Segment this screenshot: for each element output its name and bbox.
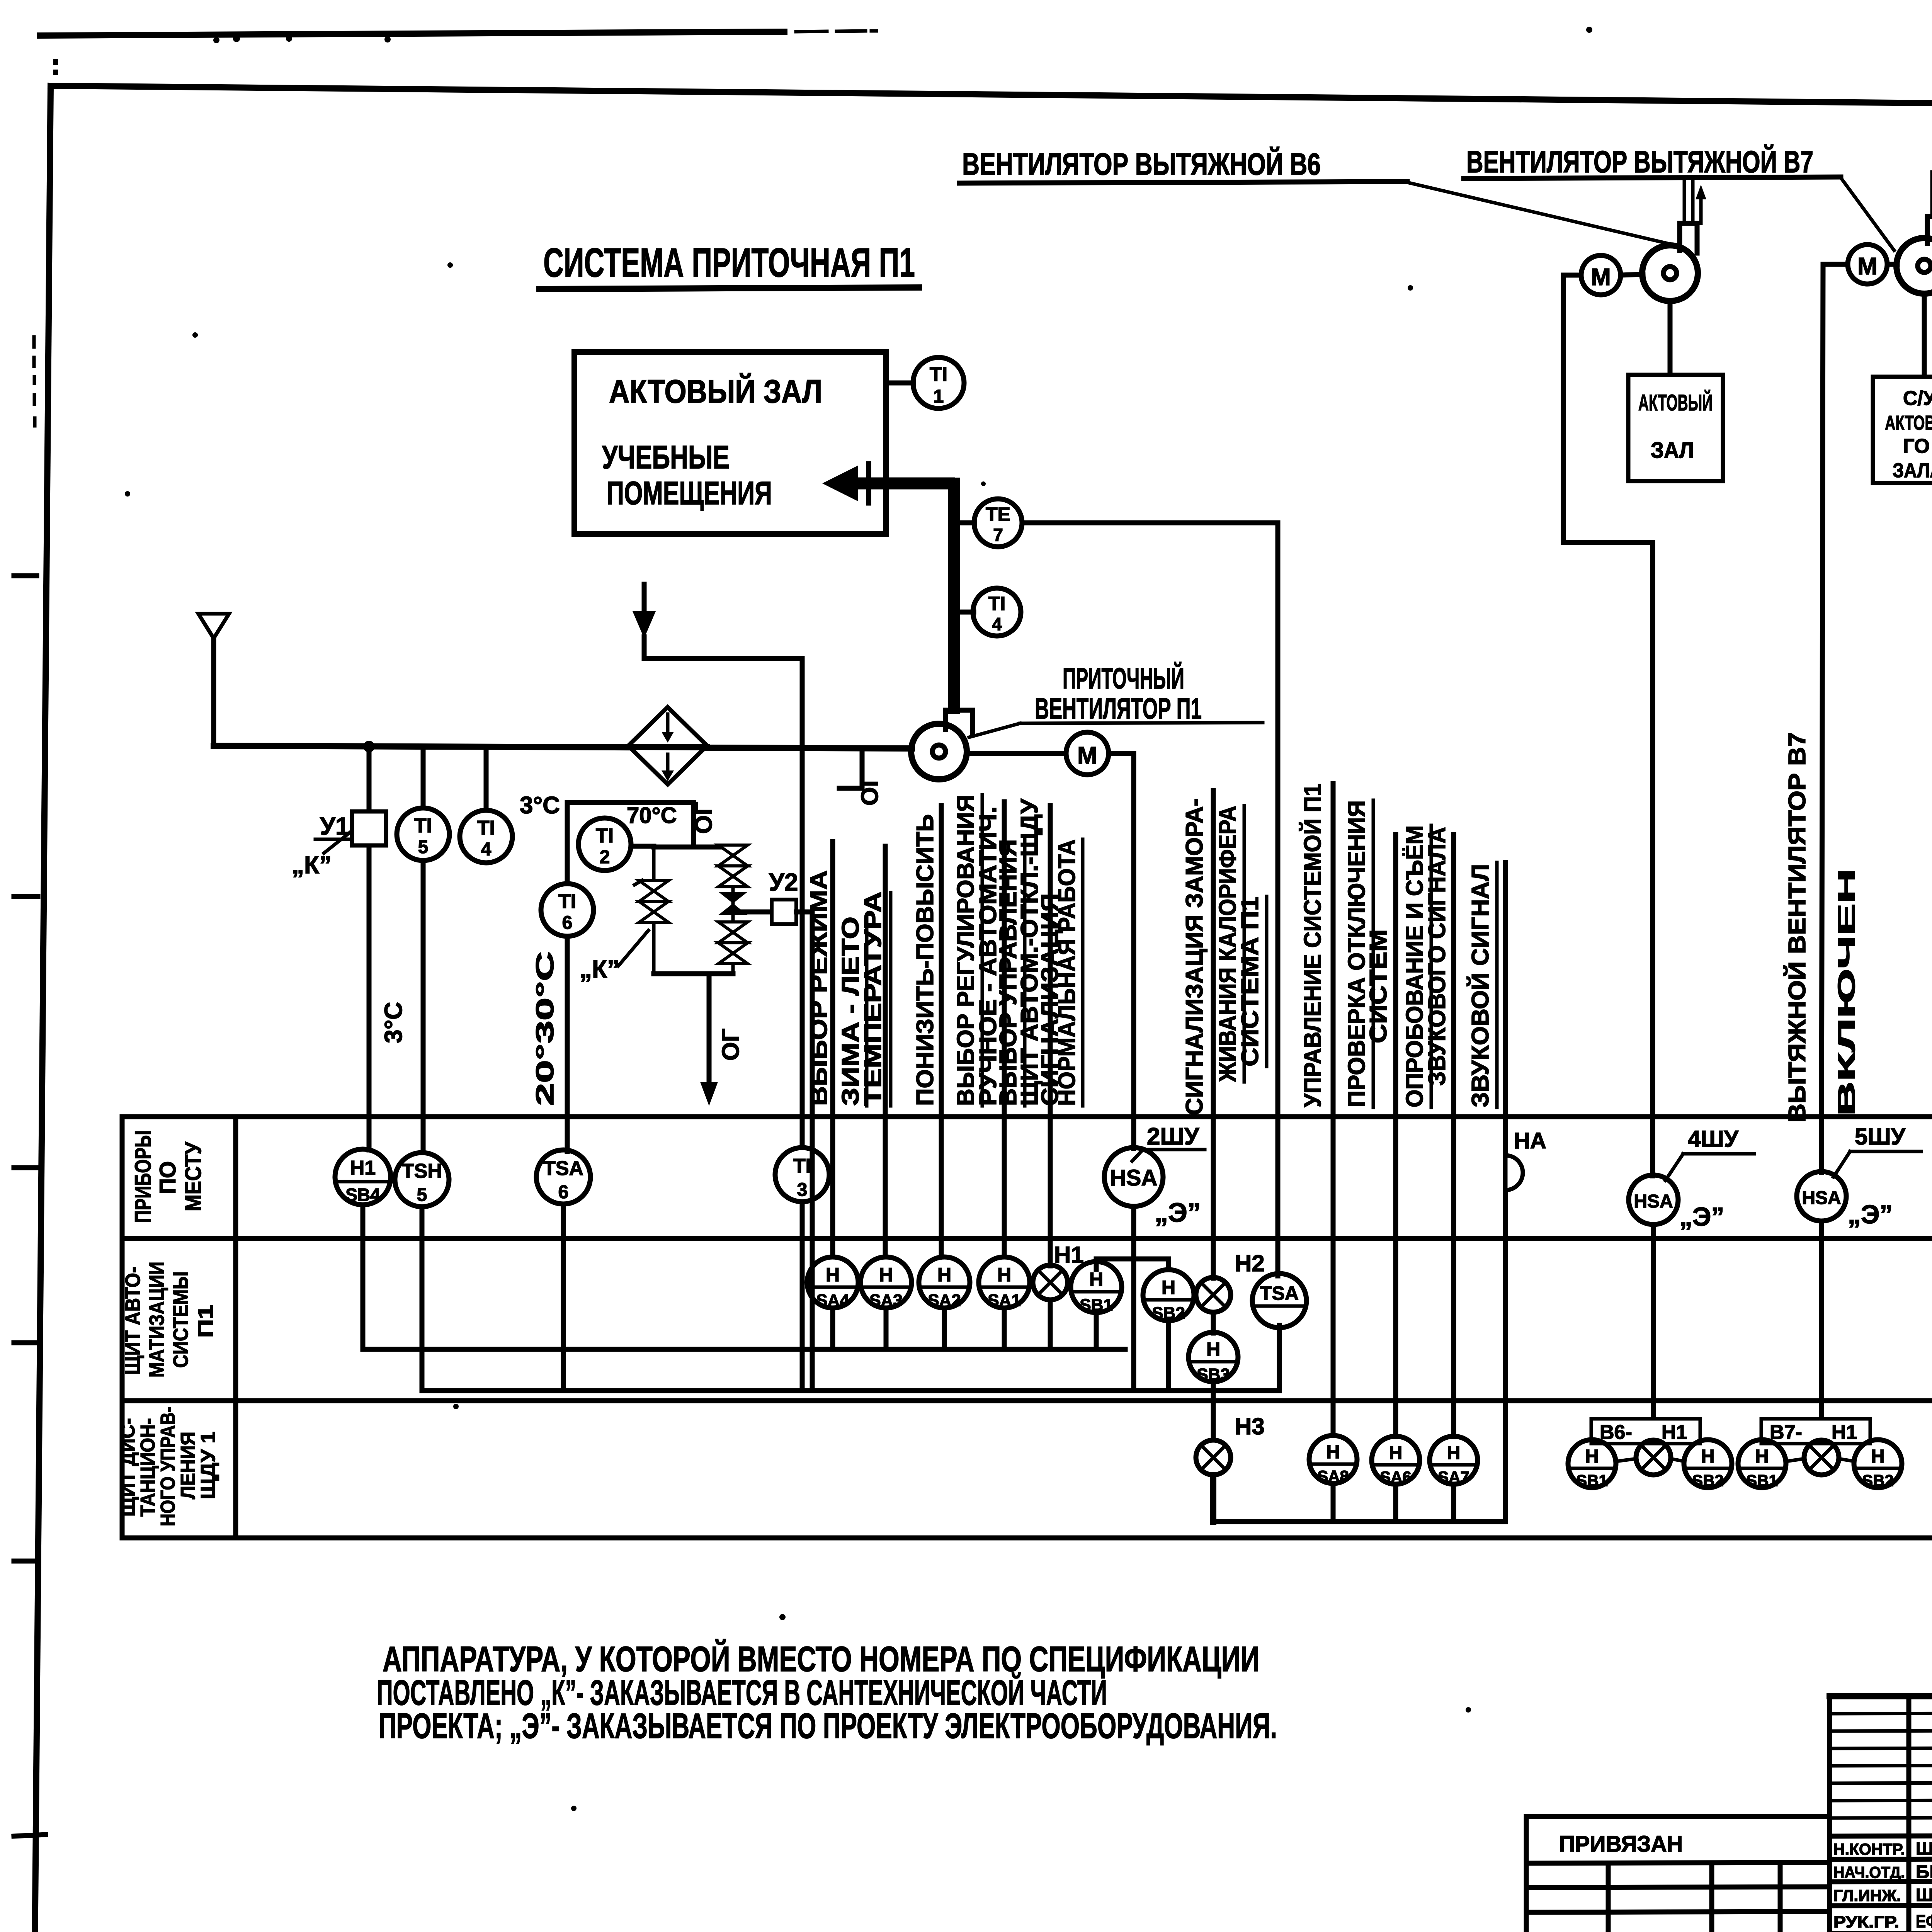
svg-text:ЛЕНИЯ: ЛЕНИЯ: [177, 1432, 199, 1499]
svg-text:УЧЕБНЫЕ: УЧЕБНЫЕ: [602, 439, 730, 475]
svg-text:ПРОЕКТА; „Э”- ЗАКАЗЫВАЕТСЯ ПО: ПРОЕКТА; „Э”- ЗАКАЗЫВАЕТСЯ ПО ПРОЕКТУ ЭЛ…: [379, 1706, 1277, 1746]
svg-text:3°С: 3°С: [379, 1002, 407, 1043]
instrument NSA 4shu B6: [1629, 1175, 1678, 1225]
svg-text:СИСТЕМА ПРИТОЧНАЯ П1: СИСТЕМА ПРИТОЧНАЯ П1: [543, 240, 915, 286]
svg-text:ТSН: ТSН: [402, 1160, 442, 1182]
fan B6 duct down to box: [1668, 301, 1673, 376]
left margin tick y4752: [14, 1835, 46, 1836]
H1 bracket: [1096, 1259, 1168, 1270]
svg-text:„Э”: „Э”: [1155, 1197, 1201, 1228]
svg-text:ОГ: ОГ: [718, 1029, 744, 1061]
grid labeled rows: [1830, 1835, 1932, 1836]
instrument TSA6: [536, 1150, 590, 1204]
Y1 wire: [367, 747, 372, 1150]
wire H2 chain: [1211, 791, 1216, 1278]
instrument H/SB3: [1189, 1332, 1238, 1384]
svg-text:5: 5: [417, 1185, 427, 1205]
drop lamp a: [1048, 1300, 1053, 1349]
valve R1: [718, 845, 748, 866]
svg-text:ЩДУ 1: ЩДУ 1: [197, 1432, 219, 1499]
thick supply duct vertical: [948, 478, 960, 714]
svg-text:П1: П1: [194, 1305, 217, 1338]
fan B6 link M-volute: [1621, 274, 1643, 275]
instrument TI2: [578, 818, 654, 871]
svg-text:ПО: ПО: [155, 1161, 180, 1194]
B6 lamp H/SB2: [1684, 1440, 1732, 1490]
svg-text:5ШУ: 5ШУ: [1855, 1124, 1906, 1150]
svg-text:Н1: Н1: [1832, 1421, 1857, 1444]
svg-text:С/У: С/У: [1903, 387, 1932, 410]
instrument H/SA7: [1430, 1436, 1478, 1486]
instrument NSA 5shu B7: [1797, 1172, 1846, 1221]
svg-text:70°С: 70°С: [627, 803, 677, 828]
main line over diamond: [628, 747, 707, 747]
svg-text:2ШУ: 2ШУ: [1147, 1123, 1200, 1150]
instrument TI3: [775, 1148, 829, 1202]
box s/u aktovogo zala (B7): [1873, 377, 1932, 483]
svg-text:ШИЛО В: ШИЛО В: [1916, 1885, 1932, 1905]
svg-text:ШИЛО В: ШИЛО В: [1916, 1838, 1932, 1859]
svg-text:4: 4: [992, 614, 1002, 634]
svg-text:ГЛ.ИНЖ.: ГЛ.ИНЖ.: [1833, 1886, 1901, 1905]
fan B7 motor M: [1848, 245, 1887, 284]
svg-text:Н.КОНТР.: Н.КОНТР.: [1833, 1840, 1905, 1858]
left edge dashes: [32, 337, 36, 347]
svg-text:Н: Н: [997, 1264, 1011, 1286]
wire TE7 to table TSA: [1022, 523, 1278, 1276]
fresh air down arrow: [642, 584, 647, 611]
instrument H1/SB4: [335, 1149, 391, 1205]
svg-text:ПОМЕЩЕНИЯ: ПОМЕЩЕНИЯ: [607, 475, 772, 511]
table outer frame: [122, 1117, 1932, 1538]
instrument H/SA1: [979, 1257, 1030, 1310]
svg-text:УПРАВЛЕНИЕ СИСТЕМОЙ П1: УПРАВЛЕНИЕ СИСТЕМОЙ П1: [1299, 784, 1326, 1107]
svg-text:НОРМАЛЬНАЯ РАБОТА: НОРМАЛЬНАЯ РАБОТА: [1054, 839, 1080, 1106]
left margin tick y4040: [14, 1559, 39, 1564]
svg-text:Н: Н: [1871, 1446, 1885, 1467]
svg-text:АКТОВЫЙ ЗАЛ: АКТОВЫЙ ЗАЛ: [609, 373, 822, 410]
instrument TI4-outdoor: [460, 747, 512, 863]
svg-text:Н: Н: [826, 1264, 840, 1286]
B7 cluster links: [1786, 1459, 1805, 1461]
horn HA: [1505, 1155, 1523, 1190]
svg-text:Н: Н: [1162, 1277, 1175, 1298]
instrument TSA row2: [1252, 1274, 1306, 1328]
fan B6 pipe arrow: [1699, 195, 1703, 223]
svg-text:НА: НА: [1514, 1128, 1546, 1153]
svg-text:ТI: ТI: [988, 593, 1005, 614]
grid thin rows: [1830, 1713, 1932, 1714]
svg-text:ТSА: ТSА: [543, 1157, 583, 1180]
svg-text:В6-: В6-: [1600, 1421, 1632, 1444]
svg-text:ТI: ТI: [558, 890, 576, 913]
svg-text:В7-: В7-: [1770, 1421, 1802, 1444]
Y2 wire to panel: [796, 912, 812, 1389]
svg-text:4ШУ: 4ШУ: [1688, 1126, 1739, 1152]
svg-text:20°30°С: 20°30°С: [531, 951, 559, 1106]
B7 lamp H/SB1: [1738, 1440, 1786, 1490]
B6-H1 bracket: [1591, 1419, 1700, 1444]
B7-H1 bracket: [1761, 1419, 1870, 1444]
svg-text:ВЕНТИЛЯТОР ВЫТЯЖНОЙ В6: ВЕНТИЛЯТОР ВЫТЯЖНОЙ В6: [962, 146, 1321, 181]
drop SA1: [1002, 1308, 1007, 1349]
noise dots: [213, 37, 219, 43]
instrument TI5: [397, 747, 449, 1153]
svg-text:НSА: НSА: [1634, 1191, 1673, 1212]
svg-text:ЗАЛА: ЗАЛА: [1893, 459, 1932, 482]
svg-text:СИСТЕМА П1: СИСТЕМА П1: [1237, 896, 1264, 1066]
main title underline: [539, 287, 919, 289]
drop TSA6 to bus B: [561, 1204, 566, 1391]
svg-text:Н3: Н3: [1235, 1413, 1265, 1439]
svg-text:5: 5: [418, 837, 429, 857]
B7 lamp H/SB2: [1854, 1440, 1902, 1490]
svg-text:ВЫБОР РЕЖИМА: ВЫБОР РЕЖИМА: [806, 870, 832, 1106]
wire volute to M: [967, 751, 1066, 756]
box aktovy zal (B6): [1628, 375, 1723, 481]
fan B7 duct down to box: [1922, 294, 1927, 378]
wire vybor rezhima: [830, 842, 835, 1257]
instrument H/SA3: [861, 1257, 912, 1310]
fan B7 exhaust pipe: [1930, 172, 1932, 216]
title block right section outline: [1830, 1696, 1932, 1932]
svg-text:7: 7: [993, 525, 1003, 545]
small grid table outline: [1830, 1696, 1932, 1932]
svg-text:У2: У2: [769, 868, 798, 896]
instrument H/SA8: [1309, 1435, 1357, 1485]
svg-text:АКТОВО-: АКТОВО-: [1885, 412, 1932, 434]
wire proverka: [1393, 835, 1398, 1437]
heat exchanger diamond: [628, 707, 707, 784]
svg-text:Н: Н: [1755, 1446, 1769, 1467]
left margin tick y3022: [14, 1165, 39, 1170]
supply fan volute: [911, 710, 973, 779]
wire H2 to SB3: [1211, 1312, 1216, 1333]
svg-text:SВ2: SВ2: [1862, 1471, 1894, 1490]
drop TSA row2 to bus B: [1277, 1325, 1282, 1391]
svg-text:SВ1: SВ1: [1576, 1471, 1608, 1490]
fan B7 link: [1887, 262, 1897, 267]
TI6 wire down: [565, 936, 570, 1151]
leader B6: [1407, 182, 1681, 247]
svg-text:Н: Н: [1206, 1338, 1220, 1360]
drop SB2 to bus B: [1166, 1321, 1171, 1391]
svg-text:2: 2: [600, 847, 610, 867]
drop TSH5 to bus B: [420, 1207, 425, 1391]
lamp cross a: [1033, 1265, 1068, 1300]
fan B6 wire to NSA: [1563, 275, 1653, 1176]
svg-text:6: 6: [562, 913, 573, 933]
frame top border: [51, 86, 1932, 110]
wire oprobovanie: [1451, 835, 1456, 1437]
svg-text:БЕЛО В: БЕЛО В: [1916, 1862, 1932, 1882]
left margin tick y3475: [14, 1340, 39, 1345]
OG stub right of diamond: [839, 750, 862, 788]
svg-text:„Э”: „Э”: [1679, 1202, 1724, 1231]
frame left border: [35, 86, 51, 1932]
svg-text:4: 4: [481, 839, 492, 860]
outer top edge line: [40, 32, 784, 36]
svg-text:„К”: „К”: [292, 851, 332, 879]
valve L2: [639, 901, 668, 922]
svg-text:ВЕНТИЛЯТОР П1: ВЕНТИЛЯТОР П1: [1035, 692, 1202, 725]
svg-text:М: М: [1857, 253, 1878, 280]
svg-text:Н: Н: [1585, 1446, 1599, 1467]
svg-text:ОГ: ОГ: [857, 774, 883, 806]
wire H3 to bus3: [1210, 1475, 1216, 1522]
row2 bus B: [422, 1388, 1279, 1393]
supply fan motor M: [1066, 732, 1109, 775]
svg-text:Н: Н: [1447, 1443, 1461, 1463]
instrument H/SA2: [919, 1257, 970, 1310]
svg-text:МАТИЗАЦИИ: МАТИЗАЦИИ: [145, 1262, 168, 1378]
svg-text:3: 3: [797, 1180, 808, 1200]
wire vybor upravleniya: [1002, 802, 1007, 1257]
B6 cluster links: [1616, 1459, 1637, 1461]
left string pipe: [652, 847, 656, 974]
fan B6 volute: [1642, 223, 1698, 301]
drop SA4: [830, 1308, 835, 1349]
wire upravlenie sistemoy: [1331, 784, 1336, 1435]
table label column divider: [233, 1117, 238, 1538]
fan B6 motor M: [1581, 255, 1621, 295]
lamp cross H3: [1196, 1440, 1231, 1475]
wire zvukovoy signal to horn and bus: [1503, 862, 1508, 1522]
svg-text:ЗВУКОВОЙ СИГНАЛ: ЗВУКОВОЙ СИГНАЛ: [1467, 864, 1494, 1107]
right string pipe: [731, 847, 735, 974]
instrument TI4 on duct: [961, 588, 1021, 636]
svg-text:ЩИТ ДИС-: ЩИТ ДИС-: [117, 1418, 139, 1517]
main air line: [214, 746, 912, 748]
OG return drop with arrow: [707, 974, 712, 1094]
manifold bottom header: [654, 971, 733, 976]
outer top edge dashes: [796, 31, 827, 32]
svg-text:ПОНИЗИТЬ-ПОВЫСИТЬ: ПОНИЗИТЬ-ПОВЫСИТЬ: [912, 814, 939, 1106]
instrument NSA 2shu: [1104, 1148, 1163, 1206]
Y2 square valve actuator: [733, 910, 772, 915]
intake riser wire: [214, 638, 216, 746]
drop SB1: [1094, 1313, 1099, 1349]
svg-text:ТЕ: ТЕ: [986, 503, 1010, 525]
svg-text:НSА: НSА: [1110, 1165, 1157, 1190]
TI6 riser to OG pipe: [567, 803, 694, 884]
manifold top header: [654, 845, 733, 850]
wire ponizit-povysit: [939, 806, 944, 1257]
fan B7 wire to NSA: [1821, 264, 1848, 1172]
svg-text:АКТОВЫЙ: АКТОВЫЙ: [1638, 390, 1713, 415]
svg-text:3°С: 3°С: [520, 792, 560, 819]
svg-text:СИГНАЛИЗАЦИЯ ЗАМОРА-: СИГНАЛИЗАЦИЯ ЗАМОРА-: [1181, 798, 1208, 1115]
drop SA2: [942, 1308, 947, 1349]
instrument H/SB1: [1071, 1262, 1122, 1315]
left margin tick y1490: [14, 573, 37, 578]
B6 lamp H/SB1: [1568, 1440, 1616, 1490]
table row divider 2: [122, 1398, 1932, 1403]
svg-text:ТI: ТI: [477, 817, 495, 839]
svg-text:ТSА: ТSА: [1260, 1282, 1299, 1304]
valve L1: [634, 880, 668, 901]
svg-text:Н2: Н2: [1235, 1250, 1265, 1276]
wire M to NSA: [1109, 753, 1134, 1148]
svg-text:ЗВУКОВОГО СИГНАЛА: ЗВУКОВОГО СИГНАЛА: [1424, 827, 1451, 1086]
svg-text:ПРИБОРЫ: ПРИБОРЫ: [131, 1130, 156, 1223]
svg-text:М: М: [1077, 742, 1097, 769]
svg-text:Н: Н: [1389, 1443, 1403, 1463]
table row divider 1: [122, 1236, 1932, 1241]
svg-text:ВКЛЮЧЕН: ВКЛЮЧЕН: [1833, 869, 1860, 1116]
svg-text:Н1: Н1: [350, 1157, 376, 1179]
svg-text:1: 1: [934, 386, 944, 407]
B7 lamp cross: [1804, 1440, 1839, 1475]
svg-text:ТI: ТI: [930, 363, 947, 386]
svg-text:SВ4: SВ4: [345, 1185, 380, 1205]
svg-text:Н1: Н1: [1054, 1242, 1084, 1268]
svg-text:МЕСТУ: МЕСТУ: [181, 1141, 206, 1211]
svg-text:6: 6: [558, 1182, 569, 1202]
Y1 square: [352, 811, 386, 845]
lamp cross H2: [1196, 1277, 1231, 1312]
drop TI3 to bus B: [800, 1202, 805, 1391]
row2 bus A: [363, 1205, 1125, 1349]
junction dot: [363, 741, 375, 752]
privyazan table: [1526, 1816, 1830, 1932]
svg-text:„К”: „К”: [580, 955, 619, 983]
leader B7: [1841, 178, 1894, 250]
instrument TI1: [886, 357, 964, 408]
svg-text:РУК.ГР.: РУК.ГР.: [1833, 1913, 1899, 1931]
svg-text:Н: Н: [1327, 1442, 1340, 1463]
svg-text:ТI: ТI: [596, 825, 614, 847]
fan B7 volute: [1896, 216, 1932, 294]
instrument H/SA4: [807, 1257, 858, 1310]
svg-text:М: М: [1591, 264, 1611, 291]
svg-text:Н1: Н1: [1662, 1421, 1687, 1444]
svg-text:СИСТЕМЫ: СИСТЕМЫ: [169, 1271, 192, 1368]
left margin tick y2320: [14, 894, 38, 899]
svg-text:ВЕНТИЛЯТОР ВЫТЯЖНОЙ В7: ВЕНТИЛЯТОР ВЫТЯЖНОЙ В7: [1466, 144, 1813, 179]
svg-text:Н: Н: [879, 1264, 893, 1286]
svg-text:ПРИТОЧНЫЙ: ПРИТОЧНЫЙ: [1063, 662, 1184, 695]
wire signalizatsiya: [1048, 806, 1053, 1266]
instrument TI6: [541, 884, 594, 936]
wire zima-leto: [883, 846, 888, 1257]
svg-text:НSА: НSА: [1802, 1188, 1841, 1208]
svg-text:ТАНЦИОН-: ТАНЦИОН-: [137, 1418, 159, 1517]
valve R3: [718, 922, 748, 943]
valve R4: [718, 943, 748, 964]
svg-text:ЗАЛ: ЗАЛ: [1651, 438, 1694, 463]
bypass line to TI3: [644, 637, 802, 1148]
svg-text:ЩИТ АВТО-: ЩИТ АВТО-: [121, 1267, 145, 1375]
svg-text:ТЕМПЕРАТУРА: ТЕМПЕРАТУРА: [860, 891, 886, 1106]
svg-text:ПРИВЯЗАН: ПРИВЯЗАН: [1559, 1832, 1683, 1857]
wire SB3 down to H3: [1211, 1382, 1216, 1440]
svg-text:Н: Н: [1701, 1446, 1715, 1467]
instrument H/SA6: [1372, 1436, 1420, 1486]
grid verticals: [1906, 1696, 1912, 1932]
svg-text:НОГО УПРАВ-: НОГО УПРАВ-: [157, 1406, 179, 1526]
svg-text:SВ2: SВ2: [1692, 1471, 1724, 1490]
svg-text:SВ1: SВ1: [1746, 1471, 1778, 1490]
svg-text:ЕФРЕМОВА: ЕФРЕМОВА: [1916, 1911, 1932, 1931]
instrument TE7: [961, 499, 1022, 547]
NSA1 wire down: [1131, 1206, 1136, 1389]
NSA B6 wire down: [1651, 1225, 1656, 1436]
fan B6 exhaust pipe: [1683, 179, 1686, 223]
corner colon marks: [53, 59, 58, 65]
svg-text:„Э”: „Э”: [1848, 1200, 1893, 1229]
NSA B7 wire down: [1819, 1221, 1824, 1436]
valve R2: [718, 866, 748, 887]
instrument TSH5: [395, 1153, 449, 1207]
svg-text:НАЧ.ОТД.: НАЧ.ОТД.: [1833, 1863, 1905, 1881]
thick supply duct horizontal with arrow: [857, 478, 955, 490]
svg-text:ГО: ГО: [1903, 435, 1930, 457]
drop SA3: [884, 1308, 889, 1349]
svg-text:ТI: ТI: [793, 1155, 811, 1177]
B6 lamp cross: [1636, 1440, 1671, 1475]
air intake symbol: [198, 614, 229, 638]
row3 bus: [1213, 1519, 1505, 1524]
check valve filled: [718, 892, 748, 915]
svg-text:Н: Н: [937, 1264, 951, 1286]
instrument H/SB2: [1143, 1270, 1194, 1323]
svg-text:ТI: ТI: [414, 815, 432, 837]
svg-text:СИСТЕМ: СИСТЕМ: [1365, 929, 1392, 1043]
big box aktovy zal / uchebnye pomeshcheniya: [574, 352, 886, 534]
svg-text:ВЫТЯЖНОЙ ВЕНТИЛЯТОР В7: ВЫТЯЖНОЙ ВЕНТИЛЯТОР В7: [1784, 732, 1811, 1122]
